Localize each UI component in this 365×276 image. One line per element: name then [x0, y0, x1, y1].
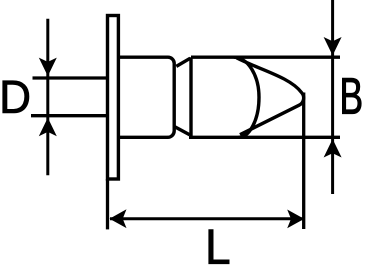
dimension D: dimension line: [46, 19, 49, 176]
conical point outline: [237, 58, 304, 135]
shank rounded end face: [168, 57, 174, 137]
dimension B: dimension line: [331, 0, 334, 194]
dimension B: lower arrowhead: [324, 139, 342, 158]
label D: [3, 81, 29, 113]
neck taper upper diagonal: [176, 58, 190, 66]
dimension L: right arrowhead: [287, 210, 304, 229]
tip-section bottom line / B bottom extension: [189, 136, 340, 139]
dimension L: right extension line (from tip): [302, 93, 305, 230]
dimension L: dimension line: [110, 217, 304, 220]
dimension L: left arrowhead: [110, 209, 127, 228]
tip-section top line / B top extension: [191, 56, 340, 59]
dimension L: left extension line (flange edge extended): [106, 179, 109, 229]
dimension D: upper arrowhead: [39, 58, 57, 77]
dimension D: lower arrowhead: [39, 118, 57, 137]
neck taper lower diagonal: [175, 127, 190, 135]
dimension B: upper arrowhead: [324, 37, 342, 56]
shank top line: [120, 56, 168, 59]
tip-section base vertical line: [189, 57, 192, 137]
label B: [342, 78, 361, 114]
dimension D: bottom extension line: [31, 114, 109, 117]
ogive base half-ellipse: [234, 57, 259, 137]
dimension D: top extension line: [33, 76, 110, 79]
flange (washer) outline: [108, 16, 119, 180]
shank bottom line: [120, 136, 168, 139]
label L: [209, 230, 229, 264]
